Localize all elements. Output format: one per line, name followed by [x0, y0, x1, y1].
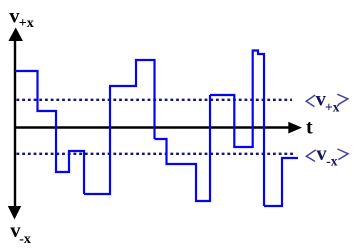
waveform trace segment E (x 264-298) — [264, 158, 298, 206]
mean level dotted line for v+x — [17, 99, 293, 101]
y-axis bottom arrowhead — [8, 206, 21, 220]
mean label <v+x> left angle bracket — [306, 95, 315, 107]
svg-text:-x: -x — [326, 154, 337, 169]
y-axis top arrowhead — [8, 28, 23, 42]
mean label <v-x> left angle bracket — [306, 150, 315, 162]
mean label <v-x> right angle bracket — [337, 149, 348, 160]
svg-text:t: t — [306, 117, 313, 139]
x-axis right arrowhead — [288, 122, 302, 134]
waveform trace segment C (x 154-210) — [155, 95, 211, 201]
svg-text:+x: +x — [325, 99, 340, 114]
waveform trace segment A (x 15-84) — [15, 71, 84, 194]
x-axis shaft — [14, 126, 290, 129]
waveform trace segment D (x 210-264) — [210, 51, 264, 207]
mean level dotted line for v-x — [17, 153, 295, 155]
svg-text:-x: -x — [19, 232, 31, 247]
svg-text:+x: +x — [19, 16, 34, 31]
mean label <v+x> right angle bracket — [337, 94, 348, 105]
y-axis shaft — [14, 33, 16, 208]
waveform trace segment B (x 84-154) — [84, 60, 155, 194]
